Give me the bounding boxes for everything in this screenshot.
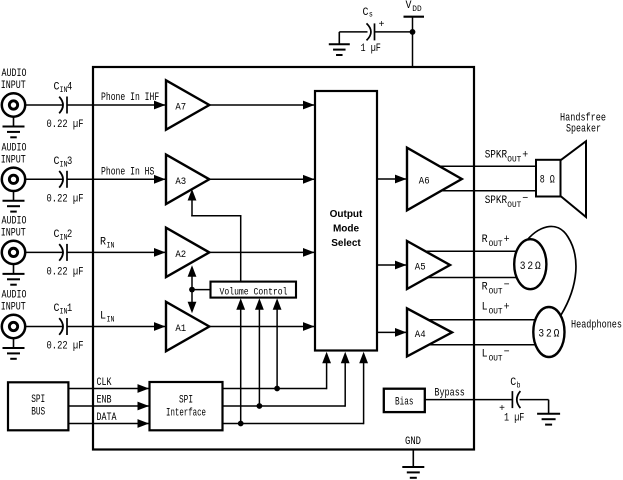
svg-text:Interface: Interface (166, 408, 206, 420)
svg-text:A1: A1 (175, 323, 186, 335)
svg-text:DD: DD (412, 5, 422, 14)
svg-text:Phone In IHF: Phone In IHF (101, 92, 159, 104)
wire A3 output to Output Mode Select (209, 175, 314, 184)
label Cb (510, 377, 520, 391)
svg-text:IN: IN (107, 242, 115, 251)
wire J2 to CIN2 (25, 251, 63, 253)
headphone earcup R (32 ohm) (514, 239, 546, 289)
wire Output Mode Select to A6 (377, 175, 407, 184)
svg-text:R: R (482, 234, 488, 246)
wire SPI to Volume Control 3 (236, 298, 245, 423)
block Volume Control (211, 282, 297, 299)
op-amp A2 (166, 228, 209, 277)
svg-text:Mode: Mode (333, 224, 360, 235)
speaker load 8 ohm (536, 160, 561, 197)
op-amp A3 (166, 155, 209, 204)
ground GND pin (402, 450, 424, 478)
svg-text:OUT: OUT (489, 355, 503, 364)
junction VDD (410, 29, 416, 35)
net label RIN (100, 237, 115, 251)
label CIN3 (54, 156, 73, 170)
label CIN2 (54, 229, 73, 243)
svg-text:AUDIO: AUDIO (2, 215, 27, 227)
wire SPI bus line 1 to Output Mode Select (223, 352, 332, 389)
svg-text:OUT: OUT (489, 308, 503, 317)
svg-text:b: b (517, 382, 521, 391)
handsfree speaker horn (561, 141, 587, 217)
svg-text:1 µF: 1 µF (504, 413, 524, 425)
svg-text:+: + (379, 20, 385, 31)
svg-text:A4: A4 (415, 329, 426, 341)
label Cs (363, 7, 374, 20)
svg-text:8 Ω: 8 Ω (540, 175, 555, 187)
wire CIN4 to A7 input (67, 101, 166, 110)
net label LIN (100, 311, 115, 325)
pin label ROUT- (482, 280, 510, 297)
svg-text:1: 1 (67, 303, 73, 315)
headphone headband (525, 226, 576, 315)
audio input connector J2 (2, 241, 25, 264)
wire Volume Control to A3 gain input (188, 189, 242, 282)
svg-text:0.22 µF: 0.22 µF (47, 119, 84, 131)
wire Output Mode Select to A5 (377, 261, 407, 270)
svg-text:s: s (369, 11, 373, 20)
wire J1 to CIN1 (25, 326, 63, 328)
svg-text:4: 4 (67, 82, 73, 94)
svg-text:AUDIO: AUDIO (2, 68, 27, 80)
wire ENB (68, 402, 149, 411)
svg-text:0.22 µF: 0.22 µF (47, 341, 84, 353)
svg-text:INPUT: INPUT (1, 80, 26, 92)
svg-text:R: R (100, 237, 106, 249)
svg-text:Phone In HS: Phone In HS (101, 166, 155, 178)
svg-text:V: V (406, 0, 412, 12)
svg-text:Headphones: Headphones (571, 319, 622, 331)
capacitor Cb (512, 391, 520, 408)
svg-text:Volume Control: Volume Control (220, 287, 288, 299)
label CIN4 (54, 82, 73, 96)
power VDD (404, 0, 425, 67)
wire CIN2 to A2 input (67, 248, 166, 257)
svg-text:1 µF: 1 µF (361, 43, 381, 55)
wire A2 output to Output Mode Select (209, 248, 314, 257)
op-amp A7 (166, 80, 209, 129)
wire A1 output to Output Mode Select (209, 322, 314, 331)
svg-text:INPUT: INPUT (1, 227, 26, 239)
svg-text:CLK: CLK (97, 377, 112, 389)
wire J4 to CIN4 (25, 104, 63, 106)
svg-text:SPI: SPI (179, 394, 193, 406)
svg-text:A2: A2 (175, 249, 186, 261)
label AUDIO INPUT 3 (1, 142, 27, 166)
svg-text:3 2 Ω: 3 2 Ω (520, 261, 541, 273)
svg-text:3 2 Ω: 3 2 Ω (538, 329, 559, 341)
svg-text:OUT: OUT (489, 240, 503, 249)
svg-text:Speaker: Speaker (566, 123, 601, 135)
wire SPI bus line 2 to Output Mode Select (223, 352, 350, 407)
svg-text:A3: A3 (175, 176, 186, 188)
wire Cs to VDD (375, 31, 413, 33)
block SPI Interface (150, 382, 223, 430)
pin label SPKROUT+ (485, 150, 529, 165)
wire Cs to ground (339, 31, 367, 33)
pin label SPKROUT- (485, 193, 529, 210)
svg-text:GND: GND (405, 436, 421, 448)
capacitor CIN1 (59, 318, 67, 335)
wire SPKROUT- (441, 190, 537, 192)
svg-text:L: L (100, 311, 106, 323)
ground (audio input J4) (3, 117, 25, 138)
svg-text:+: + (504, 234, 510, 246)
svg-text:L: L (482, 349, 488, 361)
op-amp A6 (407, 148, 462, 211)
label CIN1 (54, 303, 73, 317)
wire CLK (68, 384, 149, 393)
wire ROUT- (427, 277, 540, 279)
junction (volume control tap) (189, 287, 195, 293)
svg-text:Bias: Bias (395, 397, 414, 409)
wire Bypass (425, 399, 513, 401)
ground (Cs) (329, 32, 350, 55)
op-amp A5 (407, 241, 450, 289)
svg-text:OUT: OUT (507, 156, 521, 165)
svg-text:−: − (504, 347, 510, 359)
svg-text:AUDIO: AUDIO (2, 290, 27, 302)
pin label ROUT+ (482, 234, 510, 249)
wire SPI to Volume Control 1 (273, 298, 282, 388)
svg-text:SPI: SPI (31, 394, 45, 406)
pin label LOUT- (482, 347, 510, 364)
svg-text:ENB: ENB (97, 394, 112, 406)
wire SPKROUT+ (438, 165, 536, 167)
svg-text:A5: A5 (415, 262, 426, 274)
wire SPI to Volume Control 2 (255, 298, 264, 406)
label Handsfree Speaker (560, 112, 606, 135)
svg-text:OUT: OUT (489, 287, 503, 296)
svg-text:0.22 µF: 0.22 µF (47, 266, 84, 278)
junction SPI line 2 (257, 403, 263, 409)
op-amp A1 (166, 302, 209, 351)
block Output Mode Select (315, 91, 377, 351)
svg-text:A6: A6 (419, 176, 430, 188)
label AUDIO INPUT 4 (1, 68, 27, 92)
wire LOUT- (428, 344, 556, 346)
svg-text:DATA: DATA (97, 412, 117, 424)
wire CIN1 to A1 input (67, 322, 166, 331)
headphone earcup L (32 ohm) (533, 307, 564, 357)
junction SPI line 3 (238, 421, 244, 427)
wire ROUT+ (425, 250, 540, 252)
ground (audio input J3) (3, 191, 25, 212)
svg-text:−: − (504, 280, 510, 292)
capacitor CIN4 (59, 97, 67, 114)
pin label LOUT+ (482, 302, 510, 317)
audio input connector J4 (2, 93, 25, 116)
svg-text:0.22 µF: 0.22 µF (47, 193, 84, 205)
op-amp A4 (407, 308, 452, 356)
svg-text:IN: IN (107, 316, 115, 325)
svg-text:Output: Output (330, 209, 363, 220)
wire J3 to CIN3 (25, 178, 63, 180)
svg-text:+: + (522, 150, 528, 162)
svg-text:−: − (522, 193, 528, 205)
svg-text:+: + (504, 302, 510, 314)
svg-text:INPUT: INPUT (1, 302, 26, 314)
wire LOUT+ (427, 319, 556, 321)
ground (audio input J2) (3, 264, 25, 285)
svg-text:L: L (482, 302, 488, 314)
capacitor CIN3 (59, 171, 67, 188)
svg-text:A7: A7 (175, 102, 186, 114)
svg-text:BUS: BUS (31, 407, 45, 419)
wire A7 output to Output Mode Select (209, 101, 314, 110)
svg-text:SPKR: SPKR (485, 150, 508, 162)
svg-text:Bypass: Bypass (434, 387, 465, 399)
capacitor CIN2 (59, 244, 67, 261)
svg-text:SPKR: SPKR (485, 195, 508, 207)
junction SPI line 1 (274, 386, 280, 392)
label AUDIO INPUT 1 (1, 290, 27, 314)
svg-text:C: C (363, 7, 369, 19)
wire Output Mode Select to A4 (377, 328, 407, 337)
wire CIN3 to A3 input (67, 175, 166, 184)
audio input connector J1 (2, 315, 25, 338)
svg-text:R: R (482, 282, 488, 294)
svg-text:OUT: OUT (507, 201, 521, 210)
audio input connector J3 (2, 168, 25, 191)
svg-text:INPUT: INPUT (1, 154, 26, 166)
capacitor Cs (367, 23, 375, 40)
svg-text:AUDIO: AUDIO (2, 142, 27, 154)
svg-text:3: 3 (67, 156, 72, 168)
svg-text:Select: Select (331, 238, 361, 249)
wire Cb to ground (520, 399, 549, 401)
ground (audio input J1) (3, 338, 25, 359)
chip outline U1 (93, 67, 474, 450)
label AUDIO INPUT 2 (1, 215, 27, 239)
wire Volume Control to A2/A1 gain (double arrow) (188, 265, 211, 313)
wire SPI bus line 3 to Output Mode Select (223, 352, 369, 424)
ground (Cb) (537, 400, 560, 425)
svg-text:2: 2 (67, 229, 72, 241)
wire DATA (68, 419, 149, 428)
block SPI BUS (8, 382, 68, 430)
block Bias (384, 389, 425, 412)
